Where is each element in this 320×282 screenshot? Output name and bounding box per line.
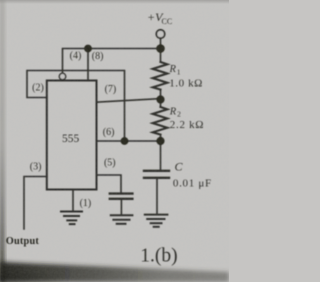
scan grain: [0, 0, 229, 282]
capacitor C plates: [144, 170, 169, 172]
wire: R1 top lead from Vcc node: [160, 49, 162, 63]
node: R2/C junction: [156, 137, 164, 145]
node: pin 8 junction: [84, 45, 92, 53]
wire: pin 8 vertical: [87, 49, 89, 81]
node: R1/R2 junction: [156, 95, 164, 103]
ground below C: [145, 215, 168, 227]
ground below pin 1: [61, 212, 82, 225]
scan shading: left edge: [0, 0, 4, 282]
wire: R2 bottom lead to node: [160, 135, 162, 141]
wire: pin 6 to R2/C junction: [97, 140, 161, 142]
resistor R1: [153, 62, 168, 90]
page background: [0, 0, 229, 282]
scan shading: bottom wedge: [0, 262, 229, 282]
wire: pin2 to pin6 link (left up and over, down right side): [27, 71, 125, 142]
capacitor at pin 5: [110, 192, 133, 194]
wire: pin 7 to R1/R2 junction: [97, 99, 161, 103]
wire: R1 bottom lead to node: [160, 90, 162, 100]
wire: C top lead: [160, 141, 162, 170]
wire: R2 top lead: [160, 100, 162, 108]
resistor R2: [153, 107, 168, 135]
wire: pin 1 down: [72, 190, 74, 212]
wire: top rail pins 4,8 to Vcc: [63, 49, 161, 73]
op-amp: 555 timer body: [47, 81, 97, 190]
pin 4 reset bubble: [59, 73, 65, 79]
ground below pin 5 capacitor: [111, 215, 133, 224]
wire: pin 5 stub and down: [97, 175, 122, 193]
wire: pin5 cap bottom lead: [120, 199, 122, 215]
node: pin2/6 link junction: [121, 137, 129, 145]
scan shading: bottom-left corner: [0, 251, 78, 282]
wire: pin 3 output: [24, 177, 47, 230]
Vcc terminal circle: [156, 30, 164, 38]
wire: C bottom lead: [156, 178, 158, 214]
node: Vcc rail junction: [156, 44, 165, 53]
scan shading: top edge: [0, 0, 229, 4]
wire: Vcc terminal stub: [160, 39, 162, 47]
